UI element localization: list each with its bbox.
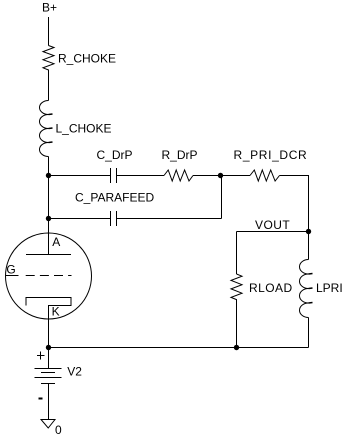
- resistor R_CHOKE: [43, 46, 54, 73]
- svg-text:L_CHOKE: L_CHOKE: [56, 121, 112, 135]
- wire battery top lead: [48, 348, 50, 369]
- wire top rail left segment: [49, 175, 111, 177]
- wire VOUT rail: [237, 231, 309, 233]
- wire RLOAD top lead: [236, 232, 238, 275]
- triode grid lead: [6, 275, 19, 277]
- node junction parafeed left: [46, 216, 51, 221]
- node VOUT: [306, 229, 311, 234]
- wire parafeed vertical riser: [221, 176, 223, 219]
- wire RLOAD bottom lead: [236, 303, 238, 348]
- triode tube envelope: [6, 233, 92, 319]
- node junction top rail / parafeed: [218, 173, 223, 178]
- wire R_DrP to node: [193, 175, 221, 177]
- svg-text:C_PARAFEED: C_PARAFEED: [75, 190, 154, 204]
- svg-text:B+: B+: [42, 1, 57, 15]
- inductor L_CHOKE: [40, 101, 49, 157]
- capacitor C_PARAFEED: [110, 211, 112, 226]
- svg-text:R_PRI_DCR: R_PRI_DCR: [234, 148, 308, 162]
- wire B+ to R_CHOKE: [48, 17, 50, 46]
- svg-text:V2: V2: [67, 365, 82, 379]
- wire anode lead into tube: [48, 219, 50, 255]
- svg-text:VOUT: VOUT: [255, 218, 290, 232]
- svg-text:R_DrP: R_DrP: [162, 148, 198, 162]
- svg-text:0: 0: [55, 423, 62, 437]
- svg-text:RLOAD: RLOAD: [249, 281, 293, 295]
- triode anode plate: [26, 254, 71, 256]
- resistor R_DrP: [164, 170, 193, 181]
- wire parafeed left segment: [49, 218, 111, 220]
- wire C_DrP to R_DrP: [117, 175, 165, 177]
- svg-text:LPRI: LPRI: [316, 281, 343, 295]
- resistor R_PRI_DCR: [250, 170, 280, 181]
- resistor RLOAD: [231, 274, 242, 303]
- wire bottom rail: [49, 347, 309, 349]
- wire L_CHOKE to node A1: [48, 157, 50, 176]
- wire parafeed right segment: [117, 218, 222, 220]
- wire node to parafeed rail: [48, 176, 50, 219]
- svg-text:G: G: [6, 262, 15, 276]
- triode grid dashes: [26, 275, 35, 277]
- wire R_CHOKE to L_CHOKE: [48, 73, 50, 101]
- wire LPRI bottom lead: [308, 318, 310, 348]
- battery V2 minus label: [39, 398, 43, 400]
- svg-text:K: K: [52, 305, 60, 319]
- battery V2 plates: [35, 368, 62, 370]
- svg-text:A: A: [52, 235, 60, 249]
- svg-text:C_DrP: C_DrP: [97, 148, 133, 162]
- wire battery bottom lead: [48, 384, 50, 420]
- battery V2 plus label: [37, 355, 45, 357]
- node junction anode/top-rail: [46, 173, 51, 178]
- wire node to R_PRI_DCR: [221, 175, 251, 177]
- capacitor C_DrP: [110, 168, 112, 183]
- inductor LPRI: [300, 260, 309, 318]
- wire cathode to bottom rail: [48, 319, 50, 348]
- node RLOAD bottom: [234, 345, 239, 350]
- svg-text:R_CHOKE: R_CHOKE: [58, 52, 116, 66]
- triode cathode: [26, 298, 71, 320]
- wire R_PRI_DCR to right rail corner: [280, 176, 309, 232]
- node junction cathode/battery/bottom rail: [46, 345, 51, 350]
- wire LPRI top lead: [308, 232, 310, 260]
- ground symbol: [41, 420, 55, 429]
